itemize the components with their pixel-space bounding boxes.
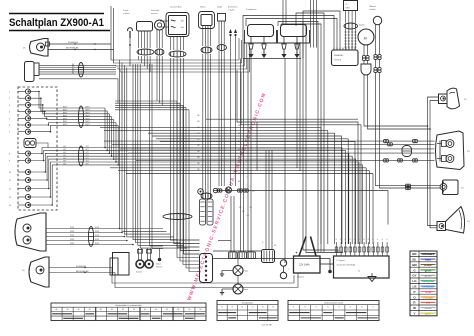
svg-text:10: 10 bbox=[9, 172, 11, 174]
svg-text:BK HIGH-BK: BK HIGH-BK bbox=[76, 271, 89, 273]
svg-text:TL: TL bbox=[338, 307, 340, 309]
svg-text:BK: BK bbox=[177, 309, 179, 311]
svg-text:Y: Y bbox=[246, 177, 247, 179]
svg-text:4: 4 bbox=[9, 112, 10, 114]
svg-text:Zünd-: Zünd- bbox=[123, 10, 129, 12]
svg-text:BK: BK bbox=[238, 181, 240, 183]
svg-text:Relais: Relais bbox=[200, 7, 206, 9]
svg-text:BK/Y: BK/Y bbox=[63, 115, 68, 117]
svg-text:BK/Y: BK/Y bbox=[63, 110, 68, 112]
svg-text:M: M bbox=[364, 37, 367, 41]
svg-text:Bremslicht-: Bremslicht- bbox=[228, 6, 238, 9]
svg-text:6: 6 bbox=[9, 125, 10, 127]
svg-text:Rahmen: Rahmen bbox=[156, 267, 162, 269]
svg-text:R HIGH-R: R HIGH-R bbox=[68, 42, 78, 44]
svg-text:BK: BK bbox=[133, 309, 135, 311]
svg-text:braun: braun bbox=[424, 263, 433, 267]
svg-text:+: + bbox=[296, 251, 298, 255]
svg-text:BK: BK bbox=[56, 309, 58, 311]
svg-text:BK: BK bbox=[238, 149, 240, 151]
svg-text:Zündspulen: Zündspulen bbox=[246, 9, 256, 11]
svg-text:schloss: schloss bbox=[123, 13, 130, 15]
svg-text:TL: TL bbox=[293, 307, 295, 309]
svg-text:Drehzahl-: Drehzahl- bbox=[151, 10, 160, 12]
svg-text:BK/Y: BK/Y bbox=[63, 107, 68, 109]
svg-text:TL: TL bbox=[327, 307, 329, 309]
svg-text:BK: BK bbox=[238, 157, 240, 159]
svg-text:BK/Y: BK/Y bbox=[63, 121, 68, 123]
svg-text:Junction Box: Junction Box bbox=[170, 6, 181, 9]
svg-text:REG: REG bbox=[346, 8, 351, 10]
svg-text:messer: messer bbox=[151, 13, 158, 15]
svg-text:BK: BK bbox=[89, 309, 91, 311]
svg-text:orange: orange bbox=[423, 295, 434, 299]
svg-text:14: 14 bbox=[9, 205, 11, 207]
svg-text:GY: GY bbox=[412, 274, 416, 278]
svg-text:Hupe: Hupe bbox=[244, 271, 248, 273]
svg-text:weiß: weiß bbox=[424, 306, 432, 310]
svg-text:TL: TL bbox=[361, 307, 363, 309]
svg-text:BK/Y: BK/Y bbox=[63, 113, 68, 115]
svg-text:Y: Y bbox=[246, 161, 247, 163]
svg-text:BK: BK bbox=[144, 309, 146, 311]
svg-text:Hupe: Hupe bbox=[244, 289, 248, 291]
svg-text:P: P bbox=[413, 290, 415, 294]
svg-text:BK/Y: BK/Y bbox=[63, 124, 68, 126]
svg-text:ZX900 A: ZX900 A bbox=[334, 59, 342, 62]
svg-text:TL: TL bbox=[304, 307, 306, 309]
svg-text:Starter: Starter bbox=[359, 24, 365, 27]
svg-text:hellgrün: hellgrün bbox=[422, 279, 434, 283]
svg-text:Öldruck-: Öldruck- bbox=[369, 5, 377, 8]
svg-text:BK: BK bbox=[78, 309, 80, 311]
svg-text:Y: Y bbox=[246, 145, 247, 147]
svg-text:rosa: rosa bbox=[425, 290, 432, 294]
svg-text:12: 12 bbox=[9, 189, 11, 191]
svg-text:13: 13 bbox=[9, 197, 11, 199]
svg-text:BK: BK bbox=[166, 309, 168, 311]
svg-text:BK: BK bbox=[238, 133, 240, 135]
svg-text:TL: TL bbox=[350, 307, 352, 309]
svg-text:LG: LG bbox=[412, 279, 417, 283]
svg-text:schalter: schalter bbox=[228, 9, 235, 12]
svg-text:BL: BL bbox=[413, 258, 417, 262]
svg-text:BK/Y: BK/Y bbox=[63, 118, 68, 120]
svg-text:schwarz: schwarz bbox=[422, 252, 435, 256]
svg-text:9: 9 bbox=[9, 161, 10, 163]
svg-text:Diode: Diode bbox=[217, 7, 223, 9]
svg-text:gelb: gelb bbox=[425, 312, 431, 316]
svg-text:grün: grün bbox=[425, 268, 432, 272]
svg-text:Schaltplan ZX900-A1: Schaltplan ZX900-A1 bbox=[9, 17, 104, 29]
svg-text:KAWASAKI: KAWASAKI bbox=[334, 54, 344, 57]
svg-text:5: 5 bbox=[9, 118, 10, 120]
svg-text:BK: BK bbox=[122, 309, 124, 311]
svg-text:Kontroll: Kontroll bbox=[136, 271, 142, 274]
svg-text:TL: TL bbox=[316, 307, 318, 309]
svg-text:W: W bbox=[413, 306, 416, 310]
svg-text:Jan.05 MK: Jan.05 MK bbox=[262, 325, 273, 327]
svg-text:12V 14Ah: 12V 14Ah bbox=[299, 264, 310, 267]
svg-text:2: 2 bbox=[9, 98, 10, 100]
svg-text:Lenkerschalter rechts: Lenkerschalter rechts bbox=[324, 302, 343, 305]
svg-text:grau: grau bbox=[425, 274, 432, 278]
svg-text:Batterie: Batterie bbox=[297, 276, 305, 279]
svg-text:11: 11 bbox=[9, 180, 11, 182]
svg-text:BK: BK bbox=[67, 309, 69, 311]
svg-text:BK: BK bbox=[100, 309, 102, 311]
svg-text:Y: Y bbox=[246, 137, 247, 139]
svg-text:BK: BK bbox=[238, 165, 240, 167]
svg-text:TL: TL bbox=[372, 307, 374, 309]
svg-text:Zündschalter / Lenkerschalter: Zündschalter / Lenkerschalter bbox=[115, 304, 142, 307]
svg-text:3: 3 bbox=[9, 105, 10, 107]
svg-text:BK HIGH-BK: BK HIGH-BK bbox=[66, 48, 79, 50]
svg-text:BK: BK bbox=[155, 309, 157, 311]
svg-text:BK: BK bbox=[111, 309, 113, 311]
svg-text:BAT: BAT bbox=[252, 190, 255, 193]
svg-text:Y: Y bbox=[246, 129, 247, 131]
svg-text:IC Igniter: IC Igniter bbox=[337, 259, 346, 262]
svg-text:BK: BK bbox=[188, 309, 190, 311]
svg-text:rot: rot bbox=[426, 301, 430, 305]
svg-text:7: 7 bbox=[9, 132, 10, 134]
svg-text:blau: blau bbox=[425, 258, 431, 262]
svg-text:Zündeinheit ZX900-A1: Zündeinheit ZX900-A1 bbox=[337, 264, 356, 267]
svg-text:8: 8 bbox=[9, 154, 10, 156]
svg-text:Masse: Masse bbox=[156, 264, 161, 266]
svg-text:BK: BK bbox=[238, 125, 240, 127]
svg-text:Y: Y bbox=[413, 312, 415, 316]
svg-text:Zündschloss: Zündschloss bbox=[242, 303, 253, 305]
svg-text:schalter: schalter bbox=[369, 8, 376, 11]
svg-text:Y: Y bbox=[246, 185, 247, 187]
svg-text:1: 1 bbox=[9, 92, 10, 94]
svg-text:BK: BK bbox=[199, 309, 201, 311]
svg-text:hellblau: hellblau bbox=[422, 285, 434, 289]
